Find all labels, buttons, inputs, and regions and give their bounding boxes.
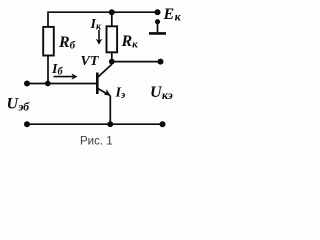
node: output terminal (bottom): [160, 121, 166, 127]
node: junction Rb / base rail: [45, 81, 51, 87]
svg-text:Iб: Iб: [51, 62, 63, 78]
node: output terminal (top): [158, 59, 164, 65]
node: emitter junction: [107, 121, 113, 127]
resistor Rb: [43, 27, 54, 56]
svg-text:Uкэ: Uкэ: [150, 84, 173, 102]
wire: base rail: [27, 83, 98, 85]
transistor VT base bar: [96, 73, 99, 95]
transistor VT emitter with arrow: [97, 88, 110, 95]
power source Ek return terminal: [149, 19, 166, 33]
svg-text:Рис. 1: Рис. 1: [80, 136, 113, 148]
wire: emitter lead: [109, 95, 111, 124]
svg-text:Rб: Rб: [58, 34, 76, 52]
wire: Rk bottom lead: [111, 52, 113, 61]
wire: top +Ek rail: [48, 11, 158, 13]
resistor Rk: [107, 26, 118, 52]
node: Ek terminal on rail: [155, 9, 161, 15]
wire: Rb top lead: [47, 11, 49, 27]
wire: bottom rail: [27, 123, 163, 125]
svg-text:VT: VT: [81, 54, 100, 69]
svg-text:Rк: Rк: [121, 33, 139, 51]
svg-text:Iэ: Iэ: [115, 86, 126, 102]
transistor VT collector lead: [97, 62, 111, 78]
svg-text:Uэб: Uэб: [7, 96, 31, 114]
current arrow Ib: [54, 73, 78, 79]
wire: collector output rail: [112, 61, 161, 63]
node: junction top rail / Rk: [109, 9, 115, 15]
node: collector junction: [109, 59, 115, 65]
svg-text:Iк: Iк: [90, 17, 102, 33]
wire: Rb bottom lead: [47, 56, 49, 84]
node: input terminal (bottom): [24, 121, 30, 127]
node: input terminal (top): [24, 81, 30, 87]
wire: Rk top lead: [111, 12, 113, 26]
current arrow Ik: [96, 30, 102, 45]
svg-text:Eк: Eк: [163, 6, 182, 24]
